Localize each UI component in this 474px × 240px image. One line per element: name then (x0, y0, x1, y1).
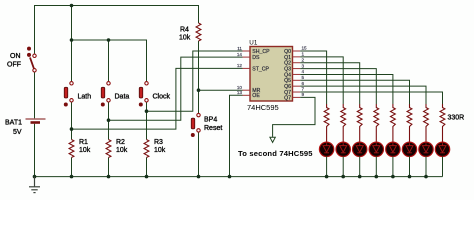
node rail LED1 (325, 175, 329, 179)
svg-text:R2: R2 (116, 139, 125, 146)
node MR junction (197, 88, 201, 92)
node rail R3 (145, 175, 149, 179)
resistor 330R #5 (391, 104, 396, 134)
svg-text:11: 11 (237, 46, 242, 51)
resistor 330R #1 (324, 104, 329, 134)
button Data (101, 82, 110, 107)
resistor 330R #4 (374, 104, 379, 134)
svg-text:330R: 330R (448, 115, 465, 122)
wire Q7 net (300, 92, 442, 104)
svg-text:4: 4 (302, 69, 305, 74)
wire Q6 net (300, 86, 426, 104)
wire R1 bottom (71, 158, 73, 177)
svg-text:Clock: Clock (153, 94, 171, 101)
wire Q2 net (300, 63, 360, 104)
resistor R4 (196, 23, 201, 41)
wire Q0 net (300, 51, 326, 104)
LED D1 (319, 134, 333, 177)
node rail LED2 (341, 175, 345, 179)
wire junction to BP4 top (198, 90, 200, 113)
node rail R2 (107, 175, 111, 179)
wire second rail y40 (72, 40, 147, 82)
button BP4 Reset (191, 113, 200, 137)
svg-text:7: 7 (302, 87, 305, 92)
wire Q5 net (300, 80, 409, 104)
arrow to second 74HC595 (270, 137, 275, 142)
resistor 330R #3 (357, 104, 362, 134)
svg-text:2: 2 (302, 57, 305, 62)
svg-text:SH_CP: SH_CP (252, 49, 270, 55)
svg-text:14: 14 (237, 52, 243, 57)
wire Q7' serial out (273, 97, 315, 136)
wire lath button to R1 (71, 102, 73, 140)
wire top rail (35, 6, 199, 54)
svg-text:ON: ON (10, 53, 21, 60)
node lath tap (70, 127, 74, 131)
resistor R2 (106, 140, 111, 158)
node rail R1 (70, 175, 74, 179)
svg-text:R4: R4 (180, 27, 189, 34)
svg-text:R1: R1 (79, 139, 88, 146)
wire Q3 net (300, 69, 376, 104)
node rail LED4 (375, 175, 379, 179)
svg-text:ST_CP: ST_CP (252, 66, 269, 72)
wire Q4 net (300, 74, 393, 104)
wire MR net (199, 89, 243, 91)
svg-text:Lath: Lath (78, 94, 92, 101)
svg-text:Q7: Q7 (284, 95, 291, 101)
svg-text:Reset: Reset (204, 125, 222, 132)
svg-text:1: 1 (302, 52, 305, 57)
svg-text:9: 9 (302, 92, 305, 97)
node rail LED5 (391, 175, 395, 179)
svg-text:DS: DS (252, 55, 260, 61)
button Clock (139, 82, 148, 107)
resistor 330R #2 (341, 104, 346, 134)
node y40 junction left (70, 38, 74, 42)
LED D4 (369, 134, 383, 177)
node rail BP4 (197, 175, 201, 179)
IC left pin stubs (243, 51, 251, 95)
svg-text:74HC595: 74HC595 (247, 103, 279, 112)
wire BP4 bottom to rail (198, 132, 200, 176)
wire lath to ST_CP (72, 68, 243, 129)
resistor 330R #6 (407, 104, 412, 134)
svg-text:U1: U1 (249, 39, 258, 46)
wire bottom ground rail (35, 176, 443, 178)
svg-text:5V: 5V (13, 129, 22, 136)
node rail LED7 (424, 175, 428, 179)
wire R3 bottom (146, 158, 148, 177)
wire clock button to R3 (146, 102, 148, 140)
resistor 330R #8 (440, 104, 445, 134)
svg-text:OE: OE (252, 93, 260, 99)
node rail battery (33, 175, 37, 179)
LED D5 (386, 134, 400, 177)
svg-text:10k: 10k (154, 147, 166, 154)
node y40 junction mid (107, 38, 111, 42)
LED D3 (353, 134, 367, 177)
node top rail junction (70, 4, 74, 8)
wire Q1 net (300, 57, 343, 104)
node rail OE (228, 175, 232, 179)
resistor R3 (144, 140, 149, 158)
wire 5V branch to buttons (71, 6, 73, 82)
svg-text:OFF: OFF (7, 62, 21, 69)
svg-text:Data: Data (115, 94, 130, 101)
ground (29, 177, 40, 193)
node clock tap (145, 109, 149, 113)
IC U1 74HC595 body (250, 47, 293, 102)
wire data to DS (109, 57, 243, 120)
LED D6 (402, 134, 416, 177)
wire R2 bottom (108, 158, 110, 177)
battery BAT1 (26, 119, 46, 123)
wire battery top (34, 72, 36, 118)
button Lath (64, 82, 73, 107)
wire R4 to MR junction (198, 41, 200, 90)
LED D2 (336, 134, 350, 177)
svg-text:13: 13 (237, 90, 243, 95)
wire data button to R2 (108, 102, 110, 140)
LED D7 (419, 134, 433, 177)
wire OE to ground (230, 95, 243, 176)
node rail LED3 (358, 175, 362, 179)
svg-text:BAT1: BAT1 (5, 120, 22, 127)
wire battery bottom (34, 124, 36, 177)
node data tap (107, 118, 111, 122)
svg-text:6: 6 (302, 81, 305, 86)
svg-text:10k: 10k (79, 147, 91, 154)
switch ON/OFF (27, 47, 36, 72)
svg-text:3: 3 (302, 63, 305, 68)
IC right pin stubs (293, 51, 301, 97)
wire data button drop (108, 40, 110, 82)
svg-text:5: 5 (302, 75, 305, 80)
svg-text:10k: 10k (116, 147, 128, 154)
resistor 330R #7 (424, 104, 429, 134)
svg-text:15: 15 (302, 46, 308, 51)
resistor R1 (69, 140, 74, 158)
svg-text:To second 74HC595: To second 74HC595 (238, 149, 313, 158)
LED D8 (435, 134, 449, 177)
svg-text:10k: 10k (179, 35, 191, 42)
wire clock to SH_CP (147, 51, 243, 111)
svg-text:R3: R3 (154, 139, 163, 146)
node rail LED6 (408, 175, 412, 179)
svg-text:12: 12 (237, 63, 243, 68)
svg-text:BP4: BP4 (204, 117, 217, 124)
